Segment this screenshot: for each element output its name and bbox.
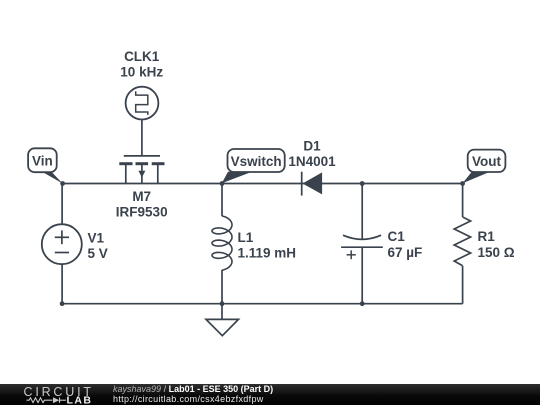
label D1 1N4001 — [288, 139, 336, 170]
node ground junction dot — [220, 301, 225, 306]
wire Vin node down to V1 top — [61, 184, 63, 225]
svg-text:M7: M7 — [132, 189, 151, 204]
label V1 5 V — [88, 231, 108, 262]
svg-text:1.119 mH: 1.119 mH — [238, 246, 297, 261]
transistor M7 PMOS — [119, 156, 164, 184]
node Vout dot — [460, 181, 465, 186]
wire Vswitch node down to L1 — [221, 184, 223, 217]
clock source CLK1 — [126, 87, 159, 120]
svg-text:R1: R1 — [478, 229, 496, 244]
label CLK1 value — [120, 49, 163, 80]
svg-text:150 Ω: 150 Ω — [478, 245, 515, 260]
wire C1 bottom plate to bottom rail — [361, 247, 363, 304]
node Vin dot — [60, 181, 65, 186]
ground — [206, 304, 239, 336]
node Vswitch dot — [220, 181, 225, 186]
wire L1 bottom to bottom rail — [221, 270, 223, 304]
resistor R1 — [454, 217, 470, 266]
diode D1 — [302, 172, 322, 196]
svg-text:C1: C1 — [388, 229, 406, 244]
node bottom-left junction dot — [60, 301, 65, 306]
svg-text:Vout: Vout — [472, 154, 501, 169]
svg-text:1N4001: 1N4001 — [288, 154, 336, 169]
wire top rail Vin to Vout — [63, 183, 463, 185]
node C1 top junction dot — [360, 181, 365, 186]
wire C1 node down to C1 top plate — [361, 184, 363, 241]
voltage source V1 — [42, 224, 82, 264]
label M7 IRF9530 — [116, 189, 168, 220]
wire V1 bottom to bottom rail — [61, 264, 63, 304]
svg-text:Vswitch: Vswitch — [231, 154, 282, 169]
svg-text:L1: L1 — [238, 230, 254, 245]
node label Vin — [28, 148, 63, 183]
svg-text:D1: D1 — [303, 139, 321, 154]
node label Vout — [463, 150, 506, 184]
svg-text:Vin: Vin — [32, 154, 53, 169]
svg-text:CLK1: CLK1 — [124, 49, 160, 64]
svg-text:5 V: 5 V — [88, 246, 108, 261]
node C1 bottom junction dot — [360, 301, 365, 306]
wire clock to gate — [141, 120, 143, 156]
svg-text:V1: V1 — [88, 231, 105, 246]
footer attribution bar — [0, 384, 540, 405]
label L1 value — [238, 230, 297, 261]
svg-text:67 µF: 67 µF — [388, 245, 423, 260]
footer text — [113, 384, 273, 394]
label R1 value — [478, 229, 515, 260]
wire Vout node down to R1 — [462, 184, 464, 218]
label C1 value — [388, 229, 423, 260]
svg-text:IRF9530: IRF9530 — [116, 205, 168, 220]
inductor L1 — [212, 216, 232, 270]
wire R1 bottom to bottom rail corner — [462, 266, 464, 304]
capacitor C1 — [341, 235, 383, 259]
node label Vswitch — [222, 149, 285, 183]
svg-text:10 kHz: 10 kHz — [120, 65, 163, 80]
svg-text:LAB: LAB — [67, 395, 92, 405]
CircuitLab logo — [15, 384, 100, 405]
wire bottom rail — [62, 303, 463, 305]
